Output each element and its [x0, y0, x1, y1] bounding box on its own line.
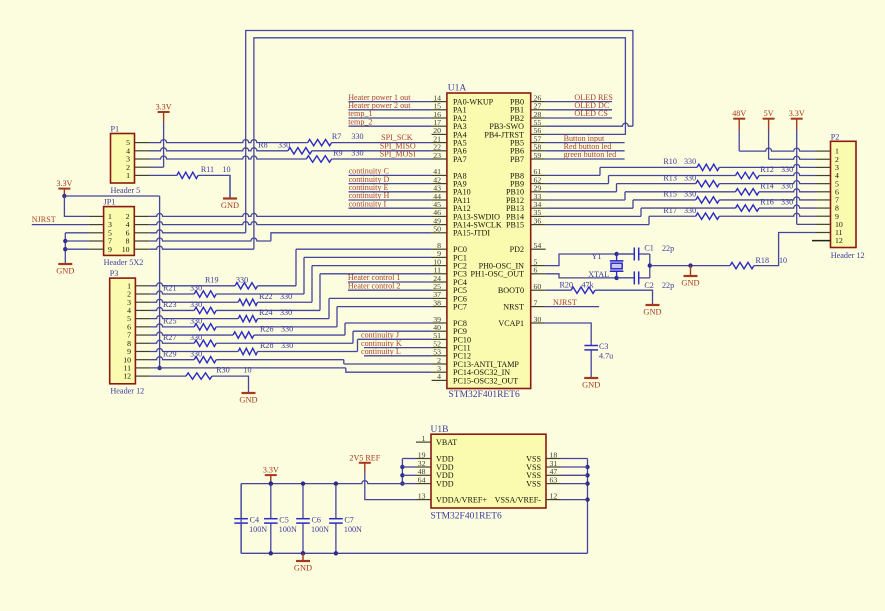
- svg-text:23: 23: [433, 151, 441, 160]
- U1B pin 32 (VDD) stub: [416, 466, 431, 468]
- connector P3 (Header 12): [110, 278, 136, 384]
- svg-text:NRST: NRST: [503, 303, 524, 312]
- wire osc node to R18: [650, 265, 730, 267]
- svg-text:330: 330: [280, 292, 292, 301]
- svg-text:PH1-OSC_OUT: PH1-OSC_OUT: [470, 270, 524, 279]
- capacitor C7 (100N): [335, 484, 337, 519]
- wire R26 to riser: [254, 334, 345, 336]
- U1A pin 39 (PC8) stub: [432, 322, 447, 324]
- U1B pin 64 (VDD) stub: [416, 483, 431, 485]
- U1A pin 16 (PA2) stub: [432, 117, 447, 119]
- wire R30 to GND: [212, 376, 249, 393]
- U1A pin 62 (PB9) stub: [531, 183, 546, 185]
- svg-text:3.3V: 3.3V: [789, 109, 805, 118]
- svg-text:3.3V: 3.3V: [156, 103, 172, 112]
- wire net continuity H: [349, 199, 432, 201]
- svg-text:R29: R29: [163, 349, 177, 358]
- junction rail C5: [269, 481, 273, 485]
- junction top rail C7: [334, 481, 338, 485]
- svg-text:VSSA/VREF-: VSSA/VREF-: [495, 496, 542, 505]
- P3 pin 10 stub: [135, 359, 150, 361]
- svg-text:R7: R7: [332, 132, 341, 141]
- wire left rail corner: [240, 484, 242, 554]
- wire riser to U1A: [320, 273, 432, 275]
- wire net OLED CS: [546, 117, 612, 119]
- resistor R25: [194, 324, 216, 330]
- JP1 pin 1 stub: [89, 215, 104, 217]
- U1A pin 53 (PC12) stub: [432, 355, 447, 357]
- svg-text:C3: C3: [599, 342, 608, 351]
- wire P3 pin9 to R28: [150, 348, 238, 351]
- junction VDD48: [400, 473, 404, 477]
- junction 3.3V node: [62, 194, 66, 198]
- resistor R28: [238, 348, 257, 354]
- wire riser to R10: [600, 166, 697, 168]
- svg-text:C2: C2: [644, 281, 653, 290]
- P2 pin 10 stub: [816, 223, 831, 225]
- junction JP1 pin9: [63, 247, 67, 251]
- svg-text:PB15: PB15: [506, 221, 524, 230]
- svg-text:22p: 22p: [662, 281, 674, 290]
- svg-text:Y1: Y1: [592, 252, 602, 261]
- wire riser to R12: [609, 175, 736, 177]
- svg-text:12: 12: [550, 491, 558, 500]
- wire riser to U1A: [344, 363, 432, 365]
- U1A pin 42 (PA9) stub: [432, 183, 447, 185]
- svg-text:R23: R23: [163, 300, 177, 309]
- junction osc output node: [648, 263, 652, 267]
- svg-text:R15: R15: [663, 190, 677, 199]
- svg-text:R22: R22: [259, 292, 273, 301]
- P3 pin 12 stub: [135, 375, 150, 377]
- wire inner loop (JP1 pin10 - U1A pin56 JTRST): [254, 38, 626, 249]
- svg-text:C1: C1: [644, 244, 653, 253]
- U1A pin 15 (PA1) stub: [432, 109, 447, 111]
- P2 pin 11 stub: [816, 232, 831, 234]
- svg-text:C4: C4: [250, 516, 259, 525]
- svg-text:P1: P1: [111, 125, 120, 134]
- svg-text:R12: R12: [760, 165, 774, 174]
- wire R12 to P2: [759, 173, 816, 176]
- resistor R22: [238, 299, 257, 305]
- wire R27 to riser: [216, 342, 353, 344]
- junction 3.3V / P3 pin11: [157, 366, 161, 370]
- resistor R9: [306, 156, 331, 162]
- power 3.3V (P2): [791, 118, 803, 120]
- U1B pin 18 (VSS) stub: [546, 458, 561, 460]
- wire JP1 pin2 to U1A pin46 (SWDIO): [149, 213, 431, 216]
- wire P1 pin1 to R11: [150, 174, 177, 176]
- svg-text:GND: GND: [643, 308, 661, 317]
- wire riser to U1A: [296, 248, 432, 250]
- svg-text:C5: C5: [279, 516, 288, 525]
- wire JP1 pin4 to U1A pin49 (SWCLK): [149, 222, 431, 225]
- svg-text:6: 6: [534, 266, 538, 275]
- svg-text:36: 36: [534, 216, 542, 225]
- svg-text:R21: R21: [163, 284, 177, 293]
- capacitor C3: [590, 343, 592, 345]
- U1A pin 33 (PB12) stub: [531, 199, 546, 201]
- U1A pin 30 (VCAP1) stub: [531, 322, 546, 324]
- U1A pin 7 (NRST) stub: [531, 306, 546, 308]
- U1A pin 58 (PB6) stub: [531, 150, 546, 152]
- resistor R14: [736, 189, 760, 195]
- wire bus to pin48: [402, 474, 416, 476]
- junction top rail C5: [269, 481, 273, 485]
- resistor R27: [194, 340, 216, 346]
- svg-text:12: 12: [835, 236, 843, 245]
- wire net Heater power 1 out: [349, 101, 432, 103]
- wire riser to U1A: [304, 256, 432, 258]
- U1A pin 17 (PA3) stub: [432, 125, 447, 127]
- svg-text:330: 330: [281, 341, 293, 350]
- U1A pin 41 (PA8) stub: [432, 174, 447, 176]
- svg-text:XTAL: XTAL: [588, 270, 609, 279]
- U1A pin 49 (PA14-SWCLK) stub: [432, 224, 447, 226]
- svg-text:R16: R16: [760, 198, 774, 207]
- U1A pin 37 (PC6) stub: [432, 297, 447, 299]
- wire U1A pin60 to R20: [546, 289, 571, 291]
- U1A pin 35 (PB14) stub: [531, 215, 546, 217]
- wire P3 pin2 to R21: [150, 291, 194, 294]
- svg-text:STM32F401RET6: STM32F401RET6: [431, 512, 503, 522]
- P3 pin 3 stub: [135, 301, 150, 303]
- ground (R20): [646, 304, 660, 306]
- resistor R15: [696, 197, 720, 203]
- U1A pin 27 (PB1) stub: [531, 109, 546, 111]
- wire VSS47: [561, 474, 588, 476]
- resistor R21: [194, 291, 216, 297]
- junction VSS31: [585, 465, 589, 469]
- svg-text:R19: R19: [205, 275, 219, 284]
- wire VSSA to bus: [561, 499, 588, 501]
- wire 5V to P2 pin2: [768, 130, 770, 159]
- svg-text:C7: C7: [344, 516, 353, 525]
- wire 3.3V to JP1 pin1: [64, 196, 88, 216]
- svg-text:54: 54: [534, 241, 542, 250]
- wire riser to U1A: [353, 330, 432, 332]
- JP1 pin 7 stub: [89, 240, 104, 242]
- power 3.3V (decoupling): [265, 474, 277, 476]
- P2 pin 1 stub: [816, 150, 831, 152]
- U1A pin 54 (PD2) stub: [531, 248, 546, 250]
- svg-text:9: 9: [108, 245, 112, 254]
- svg-text:R17: R17: [663, 206, 677, 215]
- svg-text:330: 330: [190, 316, 202, 325]
- resistor R16: [736, 205, 760, 211]
- P3 pin 5 stub: [135, 318, 150, 320]
- svg-text:13: 13: [418, 491, 426, 500]
- capacitor C1: [617, 253, 635, 255]
- U1A pin 28 (PB2) stub: [531, 117, 546, 119]
- svg-text:330: 330: [684, 173, 696, 182]
- junction VDD64: [400, 481, 404, 485]
- U1A pin 55 (PB3-SWO) stub: [531, 125, 546, 127]
- wire bus to pin19: [402, 458, 416, 460]
- svg-text:60: 60: [534, 282, 542, 291]
- junction top rail C6: [301, 481, 305, 485]
- P2 pin 8 stub: [816, 207, 831, 209]
- svg-text:R24: R24: [259, 308, 273, 317]
- svg-text:GND: GND: [681, 279, 699, 288]
- svg-text:330: 330: [684, 206, 696, 215]
- wire 48V to P2 pin1: [738, 130, 740, 151]
- P1 pin 1 stub: [135, 174, 150, 176]
- op-amp U1B (MCU STM32F401RET6 power block): [431, 434, 546, 508]
- wire P3 pin8 to R27: [150, 340, 194, 343]
- JP1 pin 4 stub: [134, 224, 149, 226]
- resistor R11: [177, 172, 198, 178]
- U1A pin 51 (PC10) stub: [432, 338, 447, 340]
- U1B pin 48 (VDD) stub: [416, 474, 431, 476]
- junction VSSA/VREF-: [585, 497, 589, 501]
- junction VDD32: [400, 465, 404, 469]
- svg-text:330: 330: [280, 308, 292, 317]
- wire R11 to GND: [198, 175, 230, 198]
- wire U1A to riser (R16): [546, 215, 641, 217]
- svg-text:R30: R30: [216, 366, 230, 375]
- P3 pin 4 stub: [135, 309, 150, 311]
- wire 3.3V top rail: [241, 481, 402, 484]
- P2 pin 4 stub: [816, 175, 831, 177]
- svg-text:R13: R13: [663, 173, 677, 182]
- svg-text:VBAT: VBAT: [436, 438, 457, 447]
- wire R22 to riser: [258, 301, 312, 303]
- wire P1 pin3 to R9: [150, 156, 307, 159]
- JP1 pin 3 stub: [89, 224, 104, 226]
- svg-text:64: 64: [418, 475, 426, 484]
- svg-text:R8: R8: [258, 140, 267, 149]
- svg-text:47k: 47k: [582, 281, 595, 290]
- wire riser R14: [624, 192, 626, 200]
- wire R8 to U1A pin22: [312, 150, 432, 152]
- power 3.3V (JP1): [58, 188, 70, 190]
- wire riser x=296: [295, 249, 297, 286]
- U1A pin 60 (BOOT0) stub: [531, 289, 546, 291]
- U1B pin 47 (VSS) stub: [546, 474, 561, 476]
- U1B pin 1 (VBAT) stub: [416, 441, 431, 443]
- U1A pin 38 (PC7) stub: [432, 306, 447, 308]
- svg-text:continuity L: continuity L: [361, 347, 401, 356]
- wire P3 pin12 to R30: [150, 375, 186, 377]
- wire JP1 pin9 to bus: [65, 248, 88, 250]
- wire R15 to P2: [719, 197, 815, 200]
- power 2V5 REF: [359, 462, 371, 464]
- resistor R18: [730, 262, 754, 268]
- P2 pin 7 stub: [816, 199, 831, 201]
- wire P3 pin5 to R24: [150, 316, 238, 319]
- svg-text:2V5 REF: 2V5 REF: [349, 453, 380, 462]
- P1 pin 3 stub: [135, 158, 150, 160]
- junction bottom rail C5: [269, 551, 273, 555]
- wire riser x=345: [344, 323, 346, 335]
- P3 pin 2 stub: [135, 293, 150, 295]
- svg-text:330: 330: [684, 190, 696, 199]
- wire NJRST to JP1 pin3: [32, 224, 89, 226]
- connector JP1 (Header 5X2): [104, 207, 135, 256]
- U1A pin 25 (PC5) stub: [432, 289, 447, 291]
- U1A pin 43 (PA10) stub: [432, 191, 447, 193]
- svg-text:1: 1: [126, 171, 130, 180]
- junction bottom rail C6: [301, 551, 305, 555]
- op-amp U1A (MCU STM32F401RET6 main block): [447, 93, 531, 389]
- U1A pin 46 (PA13-SWDIO) stub: [432, 215, 447, 217]
- ground (R11): [229, 175, 231, 198]
- wire R9 to U1A pin23: [332, 158, 432, 160]
- wire U1A pin5 to osc top rail: [546, 254, 635, 266]
- svg-text:U1B: U1B: [431, 425, 449, 435]
- wire U1A pin30 to C3: [546, 323, 592, 343]
- wire outer loop (JP1 pin6 - U1A pin55 SWO): [246, 31, 633, 233]
- capacitor C4 (100N): [240, 484, 242, 519]
- U1A pin 40 (PC9) stub: [432, 330, 447, 332]
- wire R14 to P2: [759, 189, 816, 192]
- svg-text:3.3V: 3.3V: [56, 179, 72, 188]
- wire riser to R16: [641, 207, 736, 209]
- wire R20 to GND: [595, 290, 653, 305]
- wire U1A to riser (R13): [546, 191, 617, 193]
- svg-text:U1A: U1A: [448, 84, 467, 94]
- wire riser to U1A: [358, 338, 432, 340]
- wire 3.3V to P2 pin10: [796, 130, 798, 224]
- wire riser x=337: [336, 307, 338, 327]
- svg-text:48V: 48V: [732, 109, 746, 118]
- connector P2 (Header 12): [831, 141, 857, 247]
- svg-text:GND: GND: [221, 201, 239, 210]
- wire R19 to riser: [258, 285, 296, 287]
- P1 pin 4 stub: [135, 150, 150, 152]
- resistor R29: [194, 356, 216, 362]
- wire net temp_2: [349, 125, 432, 127]
- svg-text:NJRST: NJRST: [32, 215, 56, 224]
- wire net OLED RES: [546, 101, 612, 103]
- wire riser x=353: [352, 331, 354, 343]
- U1A pin 4 (PC15-OSC32_OUT) stub: [432, 379, 447, 381]
- wire JP1 pin7 to bus: [65, 240, 88, 242]
- wire R17 to P2: [719, 213, 815, 216]
- U1B pin 31 (VSS) stub: [546, 466, 561, 468]
- JP1 pin 10 stub: [134, 248, 149, 250]
- wire R23 to riser: [216, 309, 320, 311]
- svg-text:330: 330: [781, 165, 793, 174]
- JP1 pin 5 stub: [89, 232, 104, 234]
- U1A pin 14 (PA0-WKUP) stub: [432, 101, 447, 103]
- svg-text:Header 5X2: Header 5X2: [104, 258, 144, 267]
- svg-text:10: 10: [122, 245, 130, 254]
- power 48V: [733, 118, 745, 120]
- wire bus to pin32: [402, 466, 416, 468]
- svg-text:22p: 22p: [662, 244, 674, 253]
- svg-text:P2: P2: [831, 132, 840, 141]
- JP1 pin 6 stub: [134, 232, 149, 234]
- wire riser R16: [640, 208, 642, 216]
- P2 pin 3 stub: [816, 166, 831, 168]
- svg-text:GND: GND: [56, 267, 74, 276]
- U1A pin 22 (PA6) stub: [432, 150, 447, 152]
- svg-text:4: 4: [437, 372, 441, 381]
- P3 pin 8 stub: [135, 342, 150, 344]
- P3 pin 11 stub: [135, 367, 150, 369]
- svg-text:100N: 100N: [311, 525, 329, 534]
- wire R10 to P2: [719, 164, 815, 167]
- wire riser x=312: [311, 266, 313, 303]
- resistor R13: [696, 180, 720, 186]
- P1 pin 2 stub: [135, 166, 150, 168]
- svg-text:3.3V: 3.3V: [263, 466, 279, 475]
- junction GND tap: [688, 263, 692, 267]
- wire net continuity D: [349, 183, 432, 185]
- wire riser R15: [632, 200, 634, 208]
- svg-text:50: 50: [433, 225, 441, 234]
- wire P3 pin10 to R29: [150, 357, 194, 360]
- resistor R19: [235, 283, 258, 289]
- wire riser x=329: [328, 298, 330, 318]
- wire riser to R14: [625, 191, 736, 193]
- svg-text:10: 10: [779, 256, 787, 265]
- wire U1A to riser (R12): [546, 183, 609, 185]
- svg-text:R18: R18: [756, 256, 770, 265]
- svg-text:330: 330: [351, 132, 363, 141]
- wire continuity L to U1A pin53: [364, 355, 432, 357]
- svg-text:R11: R11: [201, 165, 214, 174]
- ground (C3): [584, 377, 598, 379]
- wire 3.3V to P1 pin2: [163, 122, 165, 167]
- wire P1 pin5 to R7: [150, 140, 308, 143]
- svg-text:PA15-JTDI: PA15-JTDI: [453, 229, 490, 238]
- capacitor C6 (100N): [302, 484, 304, 519]
- svg-text:C6: C6: [312, 516, 321, 525]
- svg-text:10: 10: [223, 165, 231, 174]
- wire VSS31: [561, 466, 588, 468]
- svg-text:63: 63: [550, 475, 558, 484]
- svg-text:VSS: VSS: [526, 480, 541, 489]
- capacitor C5 (100N): [270, 484, 272, 519]
- wire JP1 pin8 to U1A pin50 (JTDI): [271, 233, 432, 241]
- wire riser to U1A: [345, 322, 432, 324]
- capacitor C2: [617, 277, 635, 279]
- resistor R26: [233, 332, 254, 338]
- wire P3 pin1 to R19: [150, 283, 235, 286]
- wire net Heater power 2 out: [349, 109, 432, 111]
- svg-text:100N: 100N: [249, 525, 267, 534]
- wire net continuity C: [349, 174, 432, 176]
- P3 pin 1 stub: [135, 285, 150, 287]
- svg-text:P3: P3: [110, 269, 119, 278]
- svg-text:R28: R28: [260, 341, 274, 350]
- junction bottom rail C7: [334, 551, 338, 555]
- wire riser R17: [648, 216, 650, 224]
- svg-text:5V: 5V: [764, 109, 774, 118]
- JP1 pin 8 stub: [134, 240, 149, 242]
- wire riser to U1A: [312, 265, 432, 267]
- U1A pin 6 (PH1-OSC_OUT) stub: [531, 273, 546, 275]
- svg-text:330: 330: [351, 149, 363, 158]
- U1A pin 44 (PA11) stub: [432, 199, 447, 201]
- junction crystal bottom: [614, 276, 618, 280]
- P2 pin 6 stub: [816, 191, 831, 193]
- wire riser R12: [608, 176, 610, 184]
- wire JP1 pin10 to inner loop: [149, 246, 254, 249]
- wire net continuity E: [349, 191, 432, 193]
- wire NRST net: [546, 306, 599, 308]
- wire U1A to riser (R14): [546, 199, 625, 201]
- svg-text:Header 12: Header 12: [110, 387, 144, 396]
- wire VDD bus vertical: [401, 459, 403, 484]
- wire VSS bus vertical: [587, 459, 589, 554]
- svg-text:R26: R26: [260, 325, 274, 334]
- resistor R30: [186, 373, 212, 379]
- resistor R8: [288, 148, 312, 154]
